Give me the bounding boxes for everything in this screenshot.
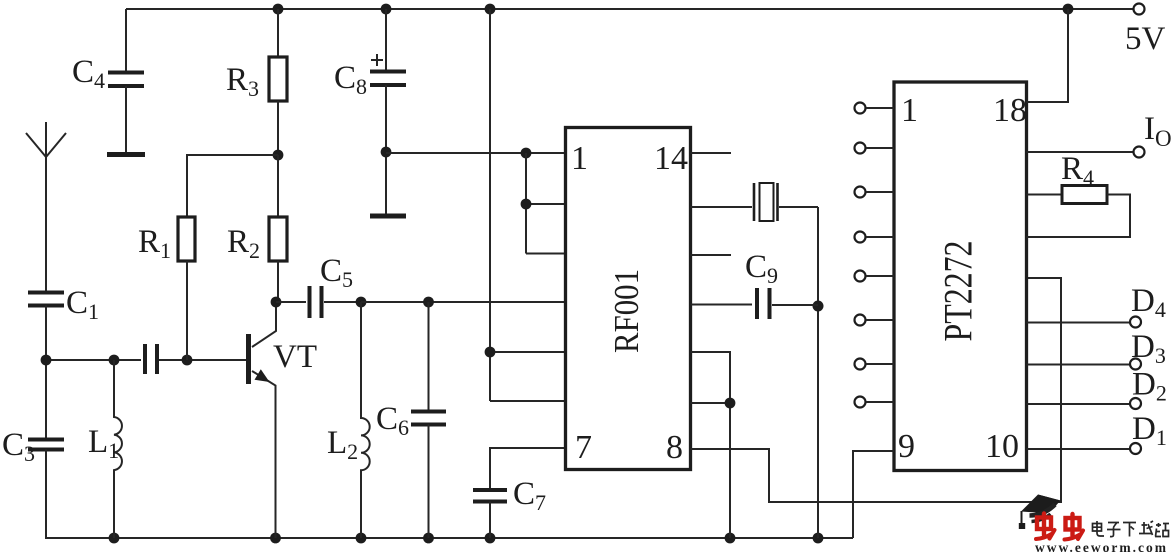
svg-text:RF001: RF001	[607, 269, 646, 353]
resistor R2	[277, 155, 279, 217]
svg-text:18: 18	[993, 92, 1027, 129]
wire RF001 pin 8 to PT2272	[691, 278, 1062, 502]
PT2272 left pin 7	[855, 359, 866, 370]
inductor L2	[361, 302, 370, 538]
node C6 top	[423, 297, 434, 308]
node R1 bottom / base	[182, 355, 193, 366]
node ground / L2	[356, 533, 367, 544]
terminal 5V	[1134, 4, 1145, 15]
wire PT2272 pin 9 to ground	[853, 451, 894, 538]
PT2272 left pin 8	[855, 397, 866, 408]
watermark 虫虫 characters	[1036, 514, 1083, 540]
wire RF001 pin stub (right, unconnected)	[691, 254, 732, 256]
svg-text:VT: VT	[273, 339, 317, 375]
svg-text:1: 1	[571, 140, 588, 177]
node ground / L1	[109, 533, 120, 544]
capacitor C1	[28, 293, 64, 306]
capacitor C8	[385, 9, 387, 71]
transistor VT	[246, 334, 251, 384]
IC RF001	[566, 128, 691, 470]
watermark graduation cap logo	[1019, 495, 1061, 530]
capacitor C7	[490, 448, 566, 490]
node top rail / R3	[273, 4, 284, 15]
node R3/R1/R2	[273, 150, 284, 161]
svg-text:1: 1	[901, 92, 918, 129]
node ground / VT emitter	[270, 533, 281, 544]
terminal D1	[1027, 448, 1130, 450]
node C9 / branch	[813, 301, 824, 312]
resistor R3	[277, 9, 279, 57]
PT2272 left pin 4	[855, 232, 866, 243]
PT2272 left pin 5	[855, 271, 866, 282]
svg-text:5V: 5V	[1125, 21, 1166, 57]
svg-text:10: 10	[985, 428, 1019, 465]
svg-text:www.eeworm.com: www.eeworm.com	[1035, 540, 1168, 553]
PT2272 left pin 1	[855, 103, 866, 114]
terminal D3	[1027, 364, 1130, 366]
node VT collector / R2 / C5	[271, 297, 282, 308]
wire C5 node to RF001 pin 4	[361, 301, 566, 303]
antenna	[26, 122, 66, 292]
IC PT2272	[894, 82, 1027, 471]
node C8 bottom / wire to RF001 pin 1	[381, 147, 392, 158]
wire ground rail	[45, 537, 853, 539]
node top rail / riser to RF001	[485, 4, 496, 15]
resistor R1	[187, 155, 278, 217]
inductor L1	[114, 360, 122, 538]
resistor R4	[1027, 194, 1063, 196]
svg-text:14: 14	[654, 140, 688, 177]
wire C8 node to RF001 pin 1	[386, 152, 566, 154]
node top rail / PT2272 pin 18 riser	[1063, 4, 1074, 15]
terminal D2	[1027, 403, 1130, 405]
svg-text:7: 7	[575, 429, 592, 466]
node ground / C7	[485, 533, 496, 544]
capacitor C4	[125, 9, 127, 72]
terminal I_O	[1027, 151, 1134, 153]
node ground / C6	[423, 533, 434, 544]
wire 5V riser to RF001 pins 5,6	[490, 9, 566, 401]
wire base node	[46, 359, 248, 361]
node pin1 tie	[521, 148, 532, 159]
node C1/C3/base	[41, 355, 52, 366]
wire RF001 pin 14 stub	[691, 152, 732, 154]
node riser / pin5	[485, 347, 496, 358]
capacitor C6	[428, 302, 430, 411]
capacitor (base coupling, unlabeled)	[145, 344, 157, 374]
PT2272 left pin 3	[855, 187, 866, 198]
capacitor C9	[691, 304, 753, 306]
wire top 5V supply rail	[126, 8, 1134, 10]
terminal D4	[1027, 322, 1131, 324]
wire PT2272 pin 18 to 5V rail	[1027, 9, 1069, 102]
node L1 top	[109, 355, 120, 366]
node RF001 ground pins	[725, 398, 736, 409]
wire crystal/C9 branch to ground	[817, 207, 819, 538]
node ground / crystal-C9 branch	[813, 533, 824, 544]
capacitor C3	[45, 360, 47, 439]
wire pins 1-2-3 tie	[526, 153, 566, 254]
node ground / RF001 pins	[725, 533, 736, 544]
capacitor C5	[276, 301, 306, 303]
crystal	[691, 206, 753, 208]
wire RF001 right pins to ground	[691, 352, 731, 538]
svg-text:9: 9	[898, 428, 915, 465]
svg-text:PT2272: PT2272	[936, 241, 981, 342]
PT2272 left pin 2	[855, 143, 866, 154]
svg-text:8: 8	[666, 429, 683, 466]
node pin2 tie	[521, 199, 532, 210]
node top rail / C8	[381, 4, 392, 15]
node C5 / L2	[356, 297, 367, 308]
PT2272 left pin 6	[855, 315, 866, 326]
watermark text 电子下载站	[1093, 521, 1170, 537]
